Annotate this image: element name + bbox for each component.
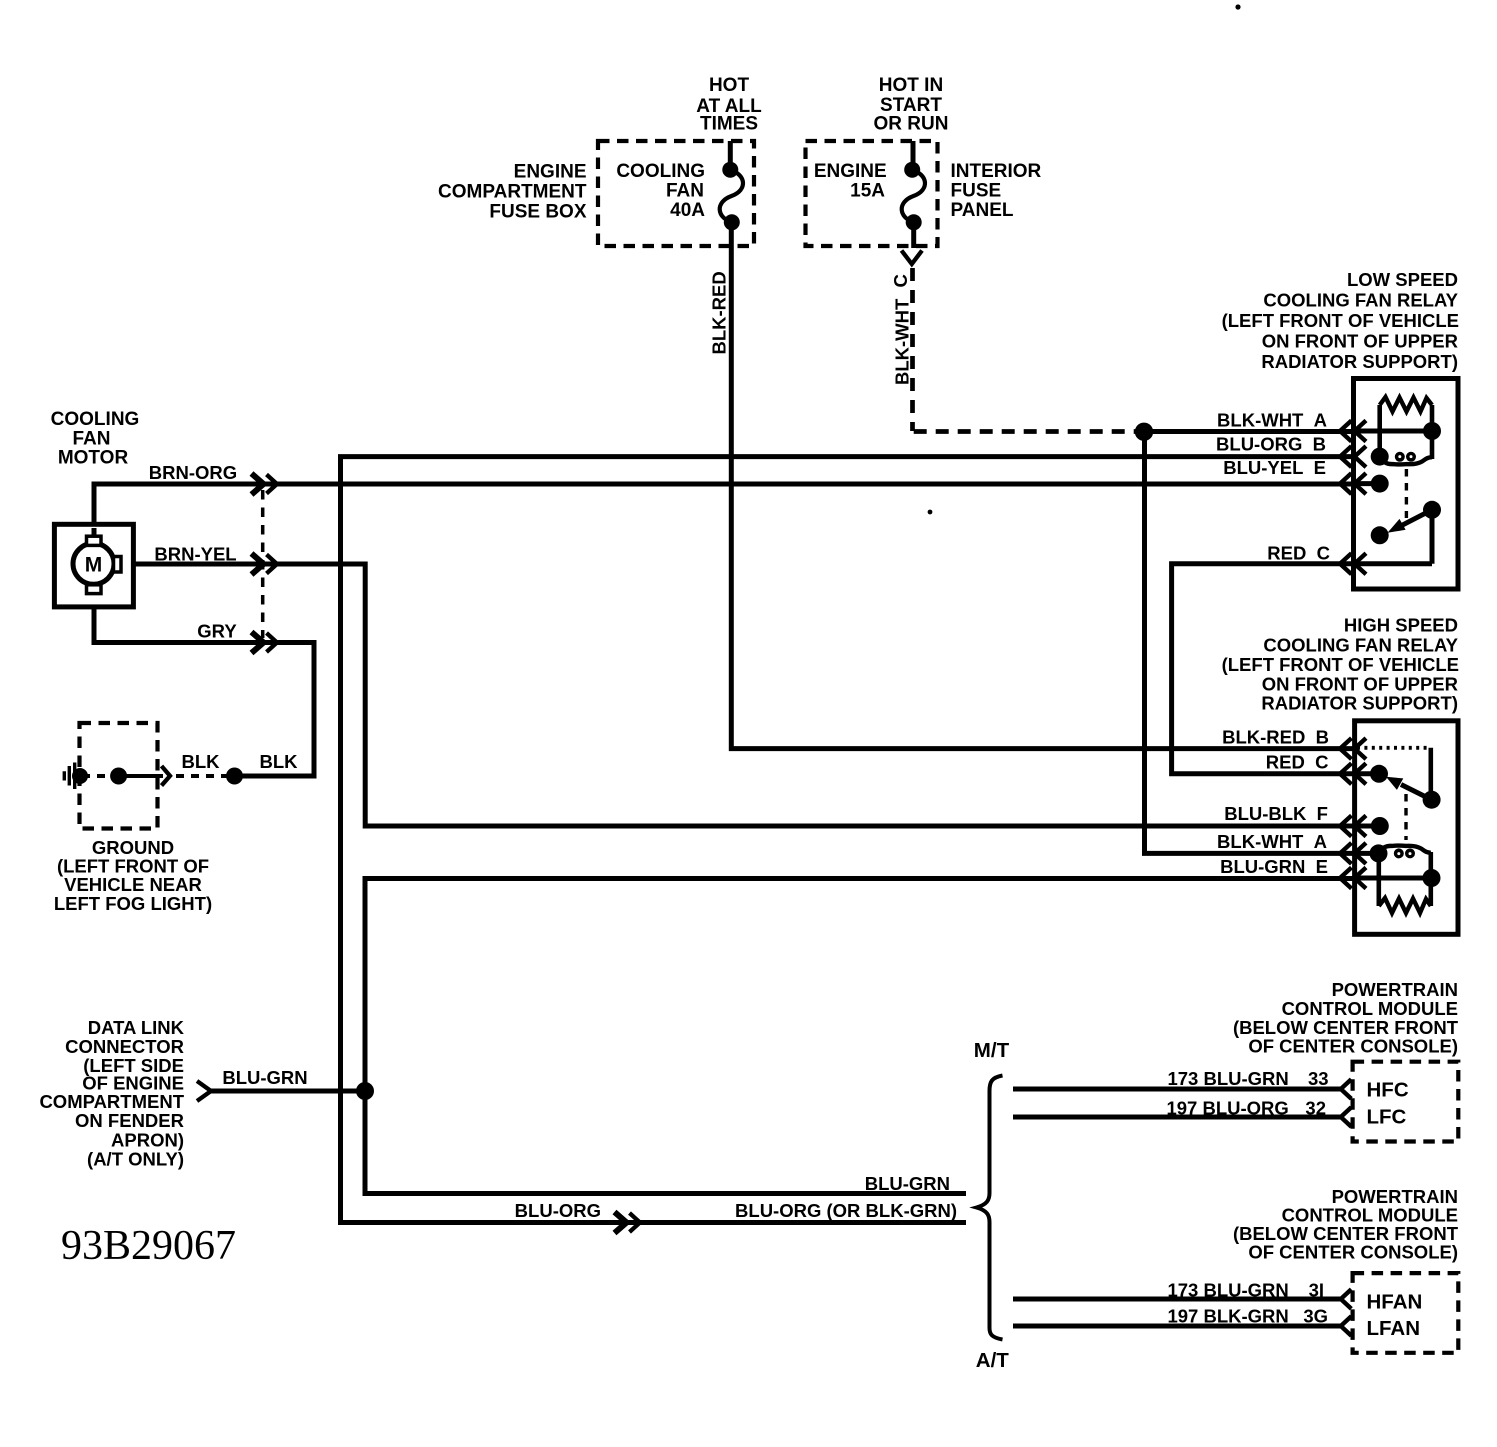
svg-text:PANEL: PANEL — [951, 200, 1014, 221]
svg-text:(A/T ONLY): (A/T ONLY) — [87, 1149, 184, 1170]
svg-text:BLU-GRN E: BLU-GRN E — [1220, 856, 1328, 877]
svg-text:OF CENTER CONSOLE): OF CENTER CONSOLE) — [1248, 1242, 1458, 1263]
svg-text:POWERTRAIN: POWERTRAIN — [1332, 979, 1458, 1000]
svg-text:CONNECTOR: CONNECTOR — [65, 1036, 184, 1057]
svg-text:GRY: GRY — [197, 621, 237, 642]
svg-text:MOTOR: MOTOR — [58, 448, 129, 469]
svg-text:BRN-ORG: BRN-ORG — [149, 462, 237, 483]
svg-text:197 BLK-GRN: 197 BLK-GRN — [1167, 1306, 1288, 1327]
svg-text:HOT IN: HOT IN — [879, 75, 943, 96]
svg-text:RED C: RED C — [1266, 752, 1329, 773]
svg-text:DATA LINK: DATA LINK — [88, 1017, 185, 1038]
svg-text:INTERIOR: INTERIOR — [951, 161, 1042, 182]
svg-text:ON FENDER: ON FENDER — [75, 1110, 184, 1131]
svg-text:A/T: A/T — [976, 1349, 1010, 1372]
svg-text:FAN: FAN — [73, 429, 111, 450]
svg-text:FAN: FAN — [666, 181, 704, 202]
svg-text:BLK-RED: BLK-RED — [709, 271, 730, 354]
svg-text:BRN-YEL: BRN-YEL — [154, 544, 236, 565]
svg-text:32: 32 — [1305, 1098, 1326, 1119]
svg-text:OF CENTER CONSOLE): OF CENTER CONSOLE) — [1248, 1036, 1458, 1057]
svg-text:BLK: BLK — [259, 751, 298, 772]
svg-text:FUSE: FUSE — [951, 181, 1002, 202]
svg-text:BLK-WHT: BLK-WHT — [892, 298, 913, 385]
svg-text:COOLING: COOLING — [616, 161, 705, 182]
svg-text:VEHICLE NEAR: VEHICLE NEAR — [64, 874, 202, 895]
svg-text:BLK-WHT A: BLK-WHT A — [1217, 410, 1327, 431]
svg-text:BLK-RED B: BLK-RED B — [1222, 727, 1329, 748]
svg-text:COOLING FAN RELAY: COOLING FAN RELAY — [1263, 635, 1458, 656]
svg-text:ENGINE: ENGINE — [514, 162, 587, 183]
svg-text:M/T: M/T — [974, 1039, 1010, 1062]
svg-text:TIMES: TIMES — [700, 114, 758, 135]
svg-text:BLU-ORG (OR BLK-GRN): BLU-ORG (OR BLK-GRN) — [735, 1200, 957, 1221]
svg-text:COMPARTMENT: COMPARTMENT — [39, 1091, 184, 1112]
svg-text:COOLING FAN RELAY: COOLING FAN RELAY — [1263, 290, 1458, 311]
svg-text:HIGH SPEED: HIGH SPEED — [1344, 615, 1458, 636]
svg-text:LFC: LFC — [1367, 1106, 1407, 1129]
svg-text:M: M — [85, 554, 103, 577]
svg-text:(LEFT FRONT OF VEHICLE: (LEFT FRONT OF VEHICLE — [1222, 310, 1459, 331]
svg-text:BLU-ORG: BLU-ORG — [515, 1200, 601, 1221]
svg-text:33: 33 — [1308, 1068, 1329, 1089]
svg-text:197 BLU-ORG: 197 BLU-ORG — [1166, 1098, 1288, 1119]
svg-text:BLK: BLK — [181, 751, 220, 772]
svg-text:LFAN: LFAN — [1367, 1317, 1421, 1340]
svg-text:COOLING: COOLING — [51, 409, 140, 430]
svg-text:COMPARTMENT: COMPARTMENT — [438, 182, 587, 203]
svg-text:ENGINE: ENGINE — [814, 161, 887, 182]
svg-text:ON FRONT OF UPPER: ON FRONT OF UPPER — [1262, 674, 1458, 695]
svg-text:HFC: HFC — [1367, 1079, 1409, 1102]
svg-text:FUSE BOX: FUSE BOX — [489, 202, 586, 223]
svg-text:RADIATOR SUPPORT): RADIATOR SUPPORT) — [1261, 693, 1458, 714]
svg-text:OR RUN: OR RUN — [874, 114, 949, 135]
svg-text:C: C — [890, 274, 911, 287]
svg-text:ON FRONT OF UPPER: ON FRONT OF UPPER — [1262, 331, 1458, 352]
svg-text:BLU-YEL E: BLU-YEL E — [1223, 457, 1326, 478]
svg-text:3G: 3G — [1303, 1306, 1328, 1327]
svg-text:HOT: HOT — [709, 75, 750, 96]
svg-text:BLU-ORG B: BLU-ORG B — [1216, 434, 1326, 455]
svg-text:APRON): APRON) — [111, 1130, 184, 1151]
svg-text:LEFT FOG LIGHT): LEFT FOG LIGHT) — [54, 893, 212, 914]
svg-text:HFAN: HFAN — [1367, 1291, 1423, 1314]
svg-text:RED C: RED C — [1267, 543, 1330, 564]
svg-text:15A: 15A — [850, 181, 885, 202]
svg-text:BLK-WHT A: BLK-WHT A — [1217, 831, 1327, 852]
svg-text:3I: 3I — [1309, 1280, 1324, 1301]
svg-text:BLU-GRN: BLU-GRN — [222, 1067, 307, 1088]
svg-text:(LEFT FRONT OF VEHICLE: (LEFT FRONT OF VEHICLE — [1222, 654, 1459, 675]
svg-text:BLU-GRN: BLU-GRN — [865, 1173, 950, 1194]
svg-text:40A: 40A — [670, 200, 705, 221]
svg-text:173 BLU-GRN: 173 BLU-GRN — [1167, 1068, 1288, 1089]
svg-text:CONTROL MODULE: CONTROL MODULE — [1282, 998, 1458, 1019]
svg-text:LOW SPEED: LOW SPEED — [1347, 269, 1458, 290]
svg-text:RADIATOR SUPPORT): RADIATOR SUPPORT) — [1261, 351, 1458, 372]
svg-text:173 BLU-GRN: 173 BLU-GRN — [1167, 1280, 1288, 1301]
svg-text:93B29067: 93B29067 — [61, 1223, 236, 1269]
svg-text:BLU-BLK F: BLU-BLK F — [1224, 803, 1328, 824]
